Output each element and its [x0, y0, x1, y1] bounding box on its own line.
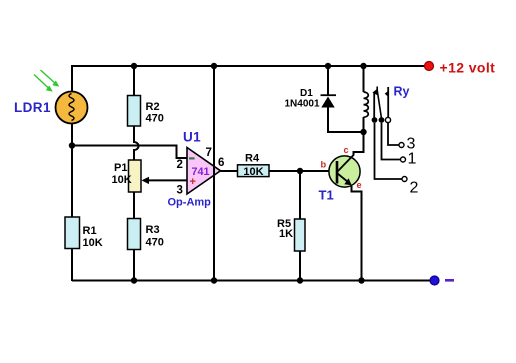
relay contact dot B	[379, 117, 385, 123]
svg-text:3: 3	[177, 184, 183, 196]
junction dot LDR / pin2 net	[69, 142, 75, 148]
light arrow 1 into LDR1	[41, 70, 60, 87]
relay Ry actuation arrow	[385, 87, 389, 118]
op-amp U1 minus input sign	[189, 157, 195, 159]
transistor T1 body	[329, 156, 360, 187]
resistor R4 body	[238, 165, 270, 177]
svg-text:+12 volt: +12 volt	[440, 60, 496, 76]
svg-text:741: 741	[192, 166, 210, 178]
wire pin3 to P1 wiper	[148, 179, 187, 181]
wire top rail to relay coil	[363, 66, 365, 92]
wire LDR bottom to R1	[71, 123, 73, 217]
wire emitter to bottom rail	[352, 186, 362, 281]
junction dot R3 / bottom rail	[131, 277, 137, 283]
terminal circle 3	[399, 143, 404, 148]
relay contact open circle	[385, 117, 390, 122]
wire R5 to bottom rail	[299, 251, 301, 281]
wire R4 to base of T1	[269, 170, 337, 172]
relay Ry switch pole line	[373, 93, 375, 119]
terminal circle 1	[401, 157, 406, 162]
svg-text:P1: P1	[114, 162, 127, 174]
svg-text:10K: 10K	[112, 174, 132, 186]
svg-text:10K: 10K	[243, 166, 263, 178]
svg-text:e: e	[357, 180, 362, 190]
resistor R1 body	[65, 217, 80, 249]
wire top +12V rail	[72, 65, 429, 67]
wire pin2 net horizontal with hop over R2-P1 wire	[72, 146, 187, 159]
wire top rail to R2	[133, 66, 135, 96]
svg-text:1: 1	[408, 150, 417, 167]
wire LDR top branch	[71, 65, 73, 92]
junction dot op-amp supply / bottom rail	[211, 277, 217, 283]
svg-text:6: 6	[218, 157, 224, 169]
wire R1 to bottom rail	[71, 249, 73, 282]
wire R2 to P1	[134, 126, 139, 160]
svg-text:1K: 1K	[279, 228, 293, 240]
svg-text:D1: D1	[300, 88, 313, 99]
transistor T1 emitter lead with arrow	[338, 174, 352, 186]
transistor T1 base bar	[336, 161, 339, 184]
wire R5 top	[299, 171, 301, 219]
resistor R5 body	[295, 219, 306, 251]
junction dot D1 / coil / collector	[360, 129, 366, 135]
terminal circle 2	[402, 177, 407, 182]
light arrow 2 into LDR1	[34, 75, 53, 92]
wire D1 anode to coil bottom	[328, 108, 364, 133]
svg-text:7: 7	[206, 147, 212, 159]
svg-text:470: 470	[146, 237, 164, 249]
svg-text:10K: 10K	[83, 237, 103, 249]
junction dot R4 / R5	[297, 168, 303, 174]
junction dot emitter / bottom rail	[358, 277, 364, 283]
svg-text:2: 2	[177, 159, 183, 171]
relay Ry coil	[364, 92, 369, 117]
resistor R2 body	[128, 96, 141, 127]
svg-text:U1: U1	[183, 130, 201, 145]
wire top rail to D1 cathode	[327, 66, 329, 95]
wire pin6 output to R4	[221, 170, 238, 172]
svg-text:LDR1: LDR1	[14, 100, 51, 115]
svg-text:R1: R1	[83, 225, 97, 237]
wire relay terminal 1	[382, 123, 401, 160]
transistor T1 collector lead	[338, 155, 354, 172]
potentiometer P1 body	[129, 160, 142, 192]
wire P1 to R3	[133, 192, 135, 219]
junction dot top rail / op-amp supply	[211, 63, 217, 69]
relay contact dot A	[372, 117, 378, 123]
svg-text:R4: R4	[245, 153, 260, 165]
svg-text:470: 470	[146, 113, 164, 125]
wire op-amp supply pin7 to pin4 vertical	[213, 66, 215, 281]
svg-text:T1: T1	[319, 188, 334, 203]
junction dot top rail / R2	[131, 63, 137, 69]
svg-text:Ry: Ry	[394, 85, 410, 99]
terminal 0V dot	[430, 276, 439, 285]
minus sign negative terminal	[445, 279, 454, 282]
terminal +12V dot	[425, 62, 434, 71]
wire coil bottom to collector node	[354, 117, 364, 156]
wire bottom 0V rail	[72, 280, 431, 282]
junction dot R5 / bottom rail	[297, 277, 303, 283]
wire op-amp supply crossing U1	[213, 160, 215, 195]
wire relay terminal 3	[388, 123, 399, 145]
resistor R3 body	[128, 219, 141, 250]
svg-text:Op-Amp: Op-Amp	[168, 197, 212, 209]
diode D1 symbol	[321, 95, 337, 107]
relay Ry armature	[377, 87, 381, 119]
junction dot top rail / relay coil	[360, 63, 366, 69]
svg-text:R3: R3	[146, 224, 160, 236]
svg-text:2: 2	[410, 180, 419, 197]
svg-text:R2: R2	[146, 101, 160, 113]
svg-text:b: b	[321, 160, 327, 170]
svg-text:1N4001: 1N4001	[285, 99, 320, 110]
svg-text:c: c	[344, 145, 349, 155]
wire relay terminal 2	[375, 123, 403, 179]
photoresistor LDR1 body	[56, 92, 88, 124]
wire R3 to bottom rail	[133, 250, 135, 282]
junction dot top rail / D1	[325, 63, 331, 69]
potentiometer P1 wiper arrow	[142, 177, 150, 184]
op-amp U1 741 triangle	[187, 148, 221, 195]
